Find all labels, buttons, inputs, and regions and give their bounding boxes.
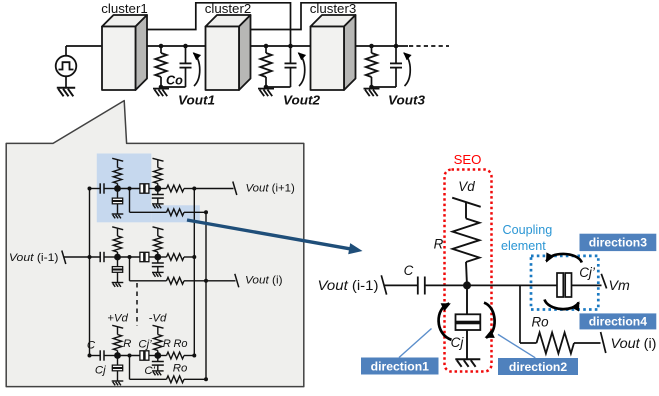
dashed ellipsis separator [136,283,138,326]
rotation arrow above Cj' (direction3) [547,254,582,263]
wire cluster2 to stage2 RC to cluster3 [251,45,311,47]
svg-text:Vout1: Vout1 [178,93,215,108]
wire source to cluster1 [65,46,67,56]
wire bus2 to terminal Vout(i) [206,280,236,282]
svg-text:Vout (i): Vout (i) [611,336,657,351]
pulse source V1 [56,56,77,77]
resistor R to -Vd (row i+1) [157,184,159,186]
ground below Cj (row i) [112,282,124,284]
wire coupling cap to node2 (row i+1) [149,188,158,190]
varactor Cj detail [466,285,468,314]
Coupling element dotted blue box [531,256,598,310]
terminal tick Vout(i+1) [233,182,237,196]
ground below source [57,88,75,97]
wire coupling cap to node2 (labelled row) [149,355,158,357]
resistor Ro main branch (labelled row) [161,355,167,357]
resistor R1 (load) [160,46,162,53]
output bus1 wire [193,189,195,356]
svg-text:R: R [434,237,444,252]
svg-text:R: R [163,338,171,350]
terminal tick Vout(i) [235,274,239,288]
svg-text:SEO: SEO [454,152,482,167]
node1 (row i) [114,254,121,261]
wire left bus to labelled row [88,354,92,358]
svg-text:Cj: Cj [451,335,465,350]
ground below R2 [258,89,274,97]
feedback wire cluster2 to Vout3 node [251,3,396,46]
terminal tick Vout(i-1) [62,251,66,265]
svg-text:element: element [501,239,546,253]
wire cap to node1 (row i+1) [104,188,118,190]
terminal tick Vout(i-1) detail [381,275,386,294]
node Vout1 [159,44,164,49]
wire terminal to capacitor C [384,284,418,286]
wire resistor to capacitor bottom [161,86,186,88]
resistor R (SEO) [465,202,467,218]
resistor R2 (load) [265,46,267,53]
wire node to Ro drop [519,285,521,343]
callout panel outline [6,101,304,387]
node2 (row i) [154,254,161,261]
dashed continuation wire [409,45,449,47]
wire capacitor to node and coupling element [425,284,557,286]
ground below C' (row i) [152,271,164,273]
connector direction1 to arrow [399,329,432,358]
junction node to lower Ro (labelled row) [128,354,132,358]
series capacitor C (row i) [99,252,101,262]
label box direction3 [580,234,657,251]
wire resistor to capacitor bottom [372,86,397,88]
node A [463,281,471,289]
node Vout3 [369,44,374,49]
resistor Ro detail [537,333,575,354]
voltage arrow Vout1 [194,53,200,86]
highlight rectangle (SEO cell) [97,154,152,223]
wire resistor to capacitor bottom [266,86,291,88]
varactor Cj (row i+1) [117,192,119,199]
coupling capacitor Cj' (row i+1) [140,184,144,193]
wire cap to node1 (row i) [104,256,118,258]
resistor R3 (load) [371,46,373,53]
SEO dashed red box [445,170,492,372]
wire terminal to row i [64,256,100,258]
node1 (row i+1) [114,185,121,192]
wire cluster1 to stage1 RC to cluster2 [147,45,206,47]
junction node to lower Ro (row i+1) [128,187,132,191]
+Vd supply tick (row i+1) [112,158,123,161]
svg-text:Cj’: Cj’ [579,265,596,280]
node2 (row i+1) [154,185,161,192]
svg-text:Vout (i): Vout (i) [245,275,283,287]
ground below Cj (row i+1) [112,213,124,215]
wire Cj' to Vm terminal [572,284,602,286]
rotation arrow right of Cj (direction2) [484,303,495,338]
svg-text:Vout3: Vout3 [388,93,426,108]
wire and resistor Ro lower branch (row i+1) [129,189,131,213]
svg-text:Ro: Ro [173,363,188,375]
resistor R to +Vd (labelled row) [117,351,119,353]
wire bus1 to terminal Vout(i+1) [194,188,233,190]
-Vd supply tick (labelled row) [153,325,164,328]
varactor Cj (row i) [117,260,119,267]
junction bus1 row i [192,255,196,259]
ground below Cj (labelled row) [112,380,124,382]
label box direction2 [498,358,578,375]
coupling capacitor Cj' detail [557,273,563,297]
terminal tick Vm [601,274,606,289]
junction bus1 row i+1 [192,187,196,191]
svg-text:Vout2: Vout2 [283,93,321,108]
svg-text:C: C [404,263,414,278]
3D box cluster2 [206,15,251,90]
capacitor C' (row i) [157,260,159,263]
svg-text:C: C [87,340,96,352]
resistor R to +Vd (row i+1) [117,184,119,186]
label box direction4 [580,313,657,329]
+Vd supply tick (row i) [112,227,123,230]
voltage arrow Vout2 [299,53,305,86]
svg-text:Co: Co [166,74,183,88]
junction bus2 row i+1 lower [204,210,208,214]
capacitor Co2 [290,46,292,63]
junction left bus row i [88,255,92,259]
wire cap to node1 (labelled row) [104,355,118,357]
svg-text:Vout (i+1): Vout (i+1) [246,183,296,195]
+Vd supply tick (labelled row) [112,325,123,328]
rotation arrow below Cj' (direction4) [545,300,579,310]
junction bus2 labelled row lower [204,377,208,381]
ground below R3 [364,89,380,97]
wire and resistor Ro lower branch (row i) [129,257,131,281]
zoom arrow panel to detail [187,220,351,249]
resistor R to -Vd (labelled row) [157,351,159,353]
junction bus1 labelled row [192,354,196,358]
resistor R to -Vd (row i) [157,252,159,254]
wire cluster3 to stage3 RC [356,45,408,47]
-Vd supply tick (row i) [153,227,164,230]
svg-text:Vd: Vd [458,179,475,194]
junction node to lower Ro (row i) [128,255,132,259]
svg-text:Ro: Ro [531,315,549,330]
coupling capacitor Cj' (row i) [140,252,144,261]
svg-text:Ro: Ro [173,338,187,350]
3D box cluster1 [102,15,147,90]
varactor Cj (labelled row) [117,359,119,366]
voltage arrow Vout3 [404,53,410,86]
svg-text:C’: C’ [144,365,155,377]
node1 (labelled row) [114,352,121,359]
wire left bus to row i+1 [88,187,92,191]
ground below R1 [153,89,169,97]
series capacitor C (row i+1) [99,183,101,193]
3D box cluster3 [311,15,356,90]
svg-text:Vm: Vm [609,278,630,294]
left bus wire [89,189,91,356]
wire source to ground [65,76,67,87]
series capacitor C (labelled row) [99,350,101,360]
junction bus2 row i lower [204,279,208,283]
capacitor C' (labelled row) [157,359,159,362]
node Vout2 [264,44,269,49]
svg-text:Vout (i-1): Vout (i-1) [318,278,379,293]
wire Ro to terminal Vout(i) [574,342,601,344]
wire and resistor Ro lower branch (labelled row) [129,356,131,380]
capacitor C detail [417,277,419,295]
highlight rectangle (coupling resistor) [151,205,200,222]
capacitor C' (row i+1) [157,192,159,195]
svg-text:direction3: direction3 [589,236,647,250]
svg-text:direction2: direction2 [509,360,567,374]
coupling capacitor Cj' (labelled row) [140,351,144,360]
svg-text:Cj’: Cj’ [138,339,152,351]
output bus2 wire [205,212,207,379]
capacitor Co3 [395,46,397,63]
rotation arrow left of Cj (direction1) [439,304,452,340]
resistor Ro main branch (row i) [161,256,167,258]
svg-text:Vout (i-1): Vout (i-1) [9,252,59,264]
wire node1 to coupling cap (labelled row) [118,355,140,357]
svg-text:Cj: Cj [95,365,106,377]
feedback wire cluster1 to Vout2 node [147,3,291,46]
capacitor Co1 [185,46,187,63]
node2 (labelled row) [154,352,161,359]
ground below C' (row i+1) [152,203,164,205]
wire coupling cap to node2 (row i) [149,256,158,258]
ground below Cj detail [455,358,480,360]
svg-text:Coupling: Coupling [503,223,553,237]
Vd supply tick (SEO) [452,198,481,207]
label box direction1 [361,358,439,375]
connector direction2 to arrow [498,334,535,357]
wire node1 to coupling cap (row i) [118,256,140,258]
terminal tick Vout(i) detail [601,332,606,353]
resistor R to +Vd (row i) [117,252,119,254]
svg-text:direction1: direction1 [371,359,429,373]
svg-text:R: R [123,338,131,350]
svg-text:-Vd: -Vd [149,313,167,325]
resistor Ro main branch (row i+1) [161,188,167,190]
wire node1 to coupling cap (row i+1) [118,188,140,190]
svg-text:+Vd: +Vd [107,313,128,325]
-Vd supply tick (row i+1) [153,158,164,161]
svg-text:cluster1: cluster1 [101,1,148,16]
svg-text:direction4: direction4 [589,315,647,329]
ground below C' (labelled row) [152,370,164,372]
